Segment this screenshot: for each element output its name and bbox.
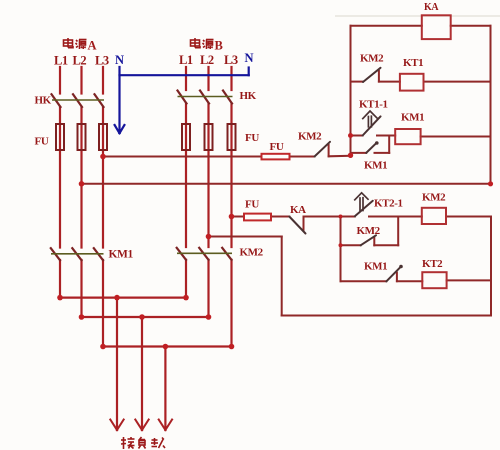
svg-text:KT1-1: KT1-1 bbox=[359, 99, 388, 111]
svg-text:B: B bbox=[215, 39, 223, 53]
svg-text:FU: FU bbox=[245, 132, 259, 144]
svg-text:KT2: KT2 bbox=[422, 258, 443, 270]
svg-text:L2: L2 bbox=[200, 53, 214, 67]
svg-text:KT1: KT1 bbox=[403, 57, 423, 69]
svg-text:KM1: KM1 bbox=[364, 160, 387, 172]
svg-text:KM2: KM2 bbox=[240, 247, 264, 259]
svg-text:N: N bbox=[245, 51, 254, 65]
svg-text:KM1: KM1 bbox=[364, 261, 387, 273]
svg-text:FU: FU bbox=[270, 141, 284, 153]
svg-text:HK: HK bbox=[240, 90, 257, 102]
svg-text:KM1: KM1 bbox=[109, 249, 134, 261]
svg-text:L1: L1 bbox=[54, 54, 68, 68]
svg-text:KT2-1: KT2-1 bbox=[374, 198, 403, 210]
svg-text:KM1: KM1 bbox=[401, 112, 424, 124]
svg-text:L3: L3 bbox=[224, 53, 238, 67]
svg-text:FU: FU bbox=[35, 136, 49, 148]
svg-text:KM2: KM2 bbox=[357, 225, 381, 237]
svg-text:L3: L3 bbox=[95, 54, 109, 68]
svg-text:KM2: KM2 bbox=[422, 192, 446, 204]
svg-text:KA: KA bbox=[424, 2, 439, 13]
svg-text:HK: HK bbox=[35, 95, 52, 107]
svg-text:FU: FU bbox=[245, 199, 259, 211]
svg-text:A: A bbox=[88, 39, 97, 53]
svg-text:KM2: KM2 bbox=[360, 53, 384, 65]
svg-text:KA: KA bbox=[290, 204, 306, 216]
svg-text:N: N bbox=[115, 53, 124, 67]
svg-text:KM2: KM2 bbox=[298, 131, 322, 143]
svg-text:L1: L1 bbox=[179, 53, 193, 67]
svg-text:L2: L2 bbox=[73, 54, 87, 68]
